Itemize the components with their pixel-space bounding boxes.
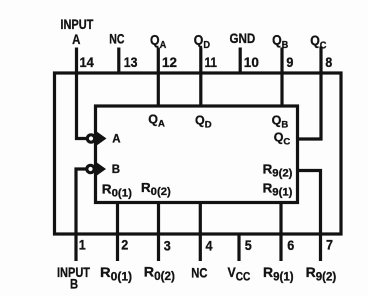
svg-text:R0(1): R0(1)	[102, 182, 132, 200]
svg-text:A: A	[112, 134, 120, 146]
svg-text:R9(2): R9(2)	[306, 264, 337, 284]
svg-text:8: 8	[325, 54, 332, 70]
svg-text:5: 5	[245, 237, 253, 253]
logic block body U1	[96, 106, 298, 203]
svg-text:GND: GND	[230, 30, 256, 46]
pin 2 wire (R0(1) net)	[116, 203, 119, 262]
input wedge B	[97, 162, 107, 176]
pin 12 wire (QA net)	[157, 48, 160, 107]
svg-text:14: 14	[80, 55, 95, 71]
pin 6 wire (R9(1) net)	[279, 203, 282, 262]
inverter bubble on input A	[87, 135, 94, 142]
pin 14 wire (INPUT A net)	[77, 48, 88, 139]
pin 9 wire (QB net)	[280, 48, 283, 107]
svg-text:B: B	[70, 276, 78, 291]
svg-text:A: A	[72, 31, 80, 47]
pin 11 wire (QD net)	[199, 48, 202, 107]
svg-text:QB: QB	[272, 114, 289, 131]
svg-text:1: 1	[79, 237, 87, 253]
svg-text:NC: NC	[191, 265, 207, 280]
svg-text:QD: QD	[195, 114, 212, 131]
package outline (IC body)	[55, 73, 342, 234]
svg-text:R0(2): R0(2)	[141, 180, 171, 198]
inverter bubble on input B	[87, 165, 94, 172]
pin 10 stub (GND)	[239, 48, 242, 74]
pin 7 wire (R9(2) net)	[298, 171, 321, 262]
svg-text:B: B	[112, 164, 120, 176]
svg-text:QA: QA	[148, 113, 165, 130]
pin 13 stub (NC)	[117, 48, 120, 74]
svg-text:6: 6	[287, 237, 294, 253]
svg-text:3: 3	[164, 238, 171, 254]
svg-text:9: 9	[286, 54, 293, 70]
svg-text:R0(2): R0(2)	[144, 264, 175, 283]
svg-text:11: 11	[205, 54, 217, 70]
svg-text:R9(2): R9(2)	[263, 162, 293, 180]
svg-text:13: 13	[124, 54, 138, 70]
svg-text:NC: NC	[109, 31, 124, 47]
svg-text:7: 7	[326, 237, 333, 253]
svg-text:4: 4	[206, 238, 214, 254]
pin 4 wire (NC)	[199, 203, 202, 262]
svg-text:VCC: VCC	[228, 264, 251, 283]
svg-text:QB: QB	[272, 32, 288, 51]
svg-text:12: 12	[162, 55, 177, 70]
svg-text:QC: QC	[310, 32, 326, 51]
svg-text:10: 10	[244, 55, 259, 70]
svg-text:R0(1): R0(1)	[100, 265, 132, 283]
pin 8 wire (QC net)	[298, 47, 322, 140]
pin 5 stub (VCC)	[237, 234, 240, 261]
pin 3 wire (R0(2) net)	[157, 203, 160, 262]
svg-text:R9(1): R9(1)	[263, 264, 294, 284]
svg-text:QC: QC	[274, 131, 291, 148]
svg-text:2: 2	[121, 237, 128, 253]
svg-text:R9(1): R9(1)	[263, 181, 293, 199]
pin 1 wire (INPUT B net)	[76, 169, 87, 261]
input wedge A	[97, 132, 107, 146]
